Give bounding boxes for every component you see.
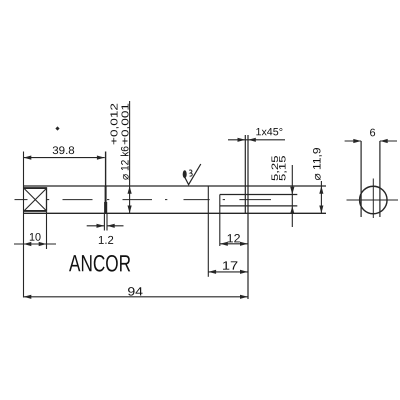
square end section bottom edge	[24, 210, 47, 212]
svg-text:6: 6	[370, 127, 376, 139]
svg-text:10: 10	[29, 232, 41, 244]
arrowheads 10	[24, 242, 32, 246]
flat bottom line	[220, 205, 297, 207]
arrowheads 17	[208, 270, 216, 274]
dimension line dia11.9 vertical	[320, 181, 322, 213]
svg-text:94: 94	[127, 284, 143, 298]
square end diagonal 1	[24, 188, 47, 211]
dimension line 94	[24, 296, 248, 298]
surface symbol blob	[183, 170, 187, 178]
dimension line 6 right segment	[380, 140, 397, 142]
svg-text:1.2: 1.2	[98, 235, 114, 247]
side view circle	[360, 186, 388, 214]
groove upper part	[105, 186, 107, 202]
svg-text:+0,001: +0,001	[120, 102, 131, 145]
arrowheads 1x45	[238, 138, 246, 142]
svg-text:5,15: 5,15	[278, 156, 289, 182]
arrowheads 94	[24, 295, 32, 299]
dimension line 5.25 vertical	[291, 165, 293, 227]
dimension line 10	[14, 243, 56, 245]
dimension line 17	[208, 271, 248, 273]
shaft end edge and extension below	[247, 135, 249, 299]
side view vertical center line	[372, 179, 374, 219]
surface finish symbol	[185, 164, 201, 185]
side view horizontal center line	[347, 199, 399, 201]
shaft top edge	[24, 185, 327, 187]
dimension line dia12 vertical	[129, 101, 131, 213]
square end diagonal 2	[24, 188, 47, 211]
arrowheads dia11.9	[319, 186, 323, 194]
svg-text:ANCOR: ANCOR	[69, 250, 131, 276]
flat left edge	[219, 195, 221, 247]
dimension line 6 left segment	[345, 140, 362, 142]
small diamond mark	[55, 126, 59, 130]
arrowheads 39.8	[24, 156, 32, 160]
square end section top edge	[24, 187, 47, 189]
side view flat edge right	[379, 141, 381, 217]
arrowheads 1.2	[97, 224, 105, 228]
dimension line 1.2 right segment	[107, 225, 124, 227]
dimension line 1x45	[228, 139, 285, 141]
groove leader line left below shaft	[103, 213, 105, 230]
svg-text:⌀ 12 k6: ⌀ 12 k6	[119, 146, 131, 180]
groove leader line right below shaft	[106, 213, 108, 230]
extension line below square right edge	[46, 212, 48, 249]
svg-text:39.8: 39.8	[52, 145, 75, 157]
arrowheads dia12	[128, 186, 132, 194]
groove lower dark part	[104, 202, 107, 213]
left extension line	[23, 152, 25, 298]
svg-text:12: 12	[227, 231, 241, 245]
square end section right edge	[46, 187, 48, 212]
arrowheads 6	[353, 139, 361, 143]
dimension line 12	[220, 243, 248, 245]
arrowheads 12	[220, 242, 228, 246]
svg-text:+0,012: +0,012	[109, 102, 120, 145]
dimension line 1.2 left segment	[87, 225, 105, 227]
chamfer line	[244, 135, 246, 213]
groove extension line above shaft	[105, 152, 107, 187]
shaft bottom edge	[24, 212, 327, 214]
svg-text:17: 17	[222, 259, 239, 273]
flat top line	[220, 194, 297, 196]
side view flat edge left	[360, 141, 362, 217]
center line of shaft (dash-dot)	[15, 199, 272, 201]
svg-text:1x45°: 1x45°	[255, 126, 283, 138]
dimension line 39.8	[24, 157, 105, 159]
arrowheads 5.25	[290, 187, 294, 195]
step edge at 17mm	[207, 186, 209, 277]
svg-text:⌀ 11,9: ⌀ 11,9	[312, 148, 324, 181]
